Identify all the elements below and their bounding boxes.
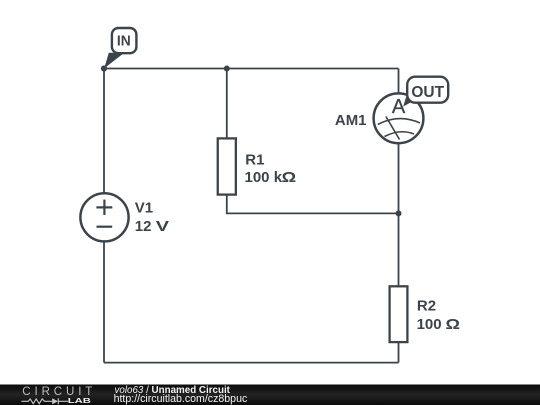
svg-text:R1: R1 xyxy=(245,151,264,168)
svg-text:LAB: LAB xyxy=(68,396,92,405)
wire ammeter bottom to R2 xyxy=(398,143,400,287)
ammeter AM1 xyxy=(374,93,424,143)
junction R1 top xyxy=(224,66,230,72)
R1 label xyxy=(245,151,297,186)
resistor R2 xyxy=(390,286,408,342)
footer bar xyxy=(0,385,540,405)
svg-text:V1: V1 xyxy=(135,200,153,217)
svg-text:100: 100 xyxy=(417,316,442,333)
svg-text:Ω: Ω xyxy=(446,316,461,333)
wire left vertical lower xyxy=(103,242,105,363)
voltage source V1 xyxy=(80,193,128,241)
svg-text:R2: R2 xyxy=(417,298,436,315)
wire R1 bottom to middle rail xyxy=(227,194,399,213)
svg-text:A: A xyxy=(392,96,406,118)
resistor R1 xyxy=(218,138,236,194)
wire bottom rail xyxy=(104,362,399,364)
wire ammeter top stub xyxy=(398,69,400,95)
R2 label xyxy=(417,298,460,333)
junction IN node xyxy=(101,65,107,71)
svg-text:http://circuitlab.com/cz8bpuc: http://circuitlab.com/cz8bpuc xyxy=(114,393,248,405)
wire R2 bottom stub xyxy=(398,342,400,363)
footer logo resistor-diode symbol xyxy=(21,398,68,404)
svg-text:AM1: AM1 xyxy=(335,112,367,129)
svg-text:OUT: OUT xyxy=(411,84,444,101)
node IN flag xyxy=(104,28,136,68)
wire top rail xyxy=(104,68,399,70)
svg-text:V: V xyxy=(156,218,169,235)
wire left vertical upper xyxy=(103,69,105,194)
node OUT flag xyxy=(403,77,448,107)
svg-text:IN: IN xyxy=(117,34,131,50)
wire R1 top stub xyxy=(226,69,228,140)
V1 label xyxy=(135,200,169,236)
svg-text:12: 12 xyxy=(135,218,152,235)
junction middle rail right xyxy=(396,210,402,216)
svg-text:Ω: Ω xyxy=(282,169,297,186)
svg-text:100 k: 100 k xyxy=(245,169,283,186)
